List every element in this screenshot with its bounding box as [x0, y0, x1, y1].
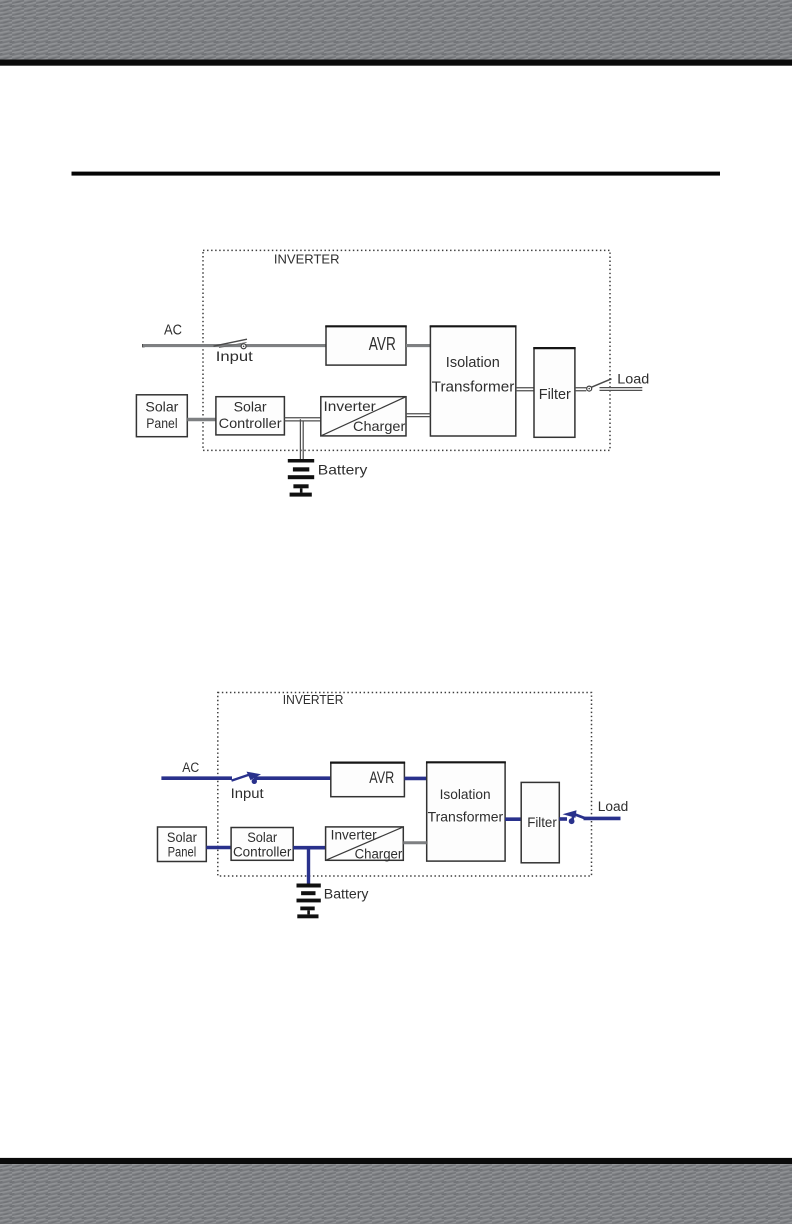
svg-text:Inverter: Inverter	[324, 398, 377, 414]
box Inverter Charger (diagram 1)	[321, 397, 406, 436]
top textured band	[0, 0, 792, 60]
svg-text:Isolation: Isolation	[446, 354, 500, 371]
box Solar Controller (diagram 2)	[231, 828, 293, 861]
svg-text:Load: Load	[617, 370, 649, 386]
svg-text:Solar: Solar	[167, 830, 197, 845]
wire Solar Controller to Inverter Charger blue (diagram 2)	[293, 846, 325, 850]
box AVR (diagram 1)	[326, 326, 406, 365]
svg-text:Input: Input	[216, 348, 253, 364]
wire Solar Controller to Inverter Charger double line (diagram 1)	[284, 418, 320, 421]
box Filter (diagram 1)	[534, 348, 575, 437]
svg-text:Panel: Panel	[168, 844, 197, 859]
svg-text:Battery: Battery	[318, 462, 368, 478]
box Isolation Transformer (diagram 1)	[430, 326, 515, 436]
svg-text:AVR: AVR	[369, 768, 394, 787]
wire Solar Panel to Solar Controller blue (diagram 2)	[206, 846, 231, 850]
top black bar	[0, 60, 792, 66]
box Isolation Transformer (diagram 2)	[427, 762, 505, 861]
svg-text:Filter: Filter	[539, 386, 571, 403]
horizontal rule	[72, 172, 721, 176]
wire Isolation Transformer to Filter blue (diagram 2)	[505, 817, 521, 821]
switch SW1 input hinge circle (diagram 1)	[241, 344, 246, 349]
box AVR (diagram 2)	[331, 763, 405, 797]
svg-text:AVR: AVR	[369, 334, 396, 354]
wire switch to AVR blue (diagram 2)	[254, 776, 331, 780]
svg-text:Inverter: Inverter	[331, 827, 377, 842]
dotted enclosure INVERTER (diagram 2)	[218, 693, 592, 877]
box Solar Controller (diagram 1)	[216, 397, 285, 435]
svg-text:Panel: Panel	[146, 415, 177, 431]
battery B2 plates (diagram 2)	[297, 884, 321, 919]
dotted enclosure INVERTER (diagram 1)	[203, 250, 610, 450]
svg-text:Solar: Solar	[247, 830, 277, 845]
wire AC input to switch and AVR (diagram 1)	[143, 344, 326, 347]
svg-text:Filter: Filter	[527, 814, 557, 830]
battery B1 plates (diagram 1)	[288, 459, 314, 497]
switch SW2 output blade (diagram 1)	[592, 379, 612, 387]
switch SW1 input blade (diagram 1)	[214, 339, 248, 346]
svg-text:AC: AC	[164, 322, 182, 338]
wire output to Load blue (diagram 2)	[584, 817, 621, 821]
wire Solar Panel to Solar Controller (diagram 1)	[187, 418, 216, 421]
svg-text:Charger: Charger	[355, 847, 403, 862]
diagonal divider Inverter Charger (diagram 2)	[326, 827, 404, 860]
bottom black bar	[0, 1158, 792, 1164]
svg-text:Transformer: Transformer	[428, 808, 504, 824]
svg-text:Solar: Solar	[145, 398, 178, 414]
wire battery junction vertical double line (diagram 1)	[300, 419, 303, 459]
wire AVR to Isolation Transformer blue (diagram 2)	[404, 777, 426, 781]
wire battery junction vertical blue (diagram 2)	[307, 848, 310, 884]
svg-text:Battery: Battery	[324, 887, 369, 902]
switch SW2 hinge dot blue (diagram 2)	[569, 818, 575, 824]
box Solar Panel (diagram 1)	[136, 395, 187, 437]
wire Filter to output switch blue (diagram 2)	[559, 817, 567, 821]
diagonal divider Inverter Charger (diagram 1)	[321, 397, 406, 436]
wire Inverter Charger to Isolation Transformer double line (diagram 1)	[406, 414, 430, 417]
bottom textured band	[0, 1164, 792, 1224]
svg-text:Solar: Solar	[234, 398, 267, 414]
svg-text:Load: Load	[598, 799, 629, 814]
box Filter (diagram 2)	[521, 782, 559, 862]
svg-text:Input: Input	[231, 786, 264, 801]
switch SW2 output blue blade with arrowhead (diagram 2)	[573, 814, 587, 819]
svg-text:Controller: Controller	[233, 845, 292, 860]
wire Filter to output switch double line (diagram 1)	[575, 388, 586, 391]
svg-text:Transformer: Transformer	[432, 379, 515, 396]
svg-text:AC: AC	[182, 760, 199, 775]
wire AVR to Isolation Transformer (diagram 1)	[406, 344, 430, 347]
svg-text:Controller: Controller	[219, 415, 282, 431]
svg-text:INVERTER: INVERTER	[274, 252, 340, 266]
svg-text:INVERTER: INVERTER	[283, 693, 344, 707]
svg-text:Charger: Charger	[353, 418, 406, 434]
box Solar Panel (diagram 2)	[158, 827, 207, 862]
wire output to Load double line (diagram 1)	[600, 388, 643, 391]
node AC input terminal (diagram 1)	[142, 344, 145, 347]
wire Inverter Charger to Isolation Transformer gray (diagram 2)	[403, 841, 426, 844]
switch SW1 blue blade with arrowhead (diagram 2)	[232, 774, 251, 780]
wire AC input blue (diagram 2)	[161, 776, 232, 780]
switch SW2 output hinge circle (diagram 1)	[587, 386, 592, 391]
svg-text:Isolation: Isolation	[440, 786, 491, 802]
box Inverter Charger (diagram 2)	[326, 827, 404, 860]
wire Isolation Transformer to Filter double line (diagram 1)	[516, 388, 534, 391]
